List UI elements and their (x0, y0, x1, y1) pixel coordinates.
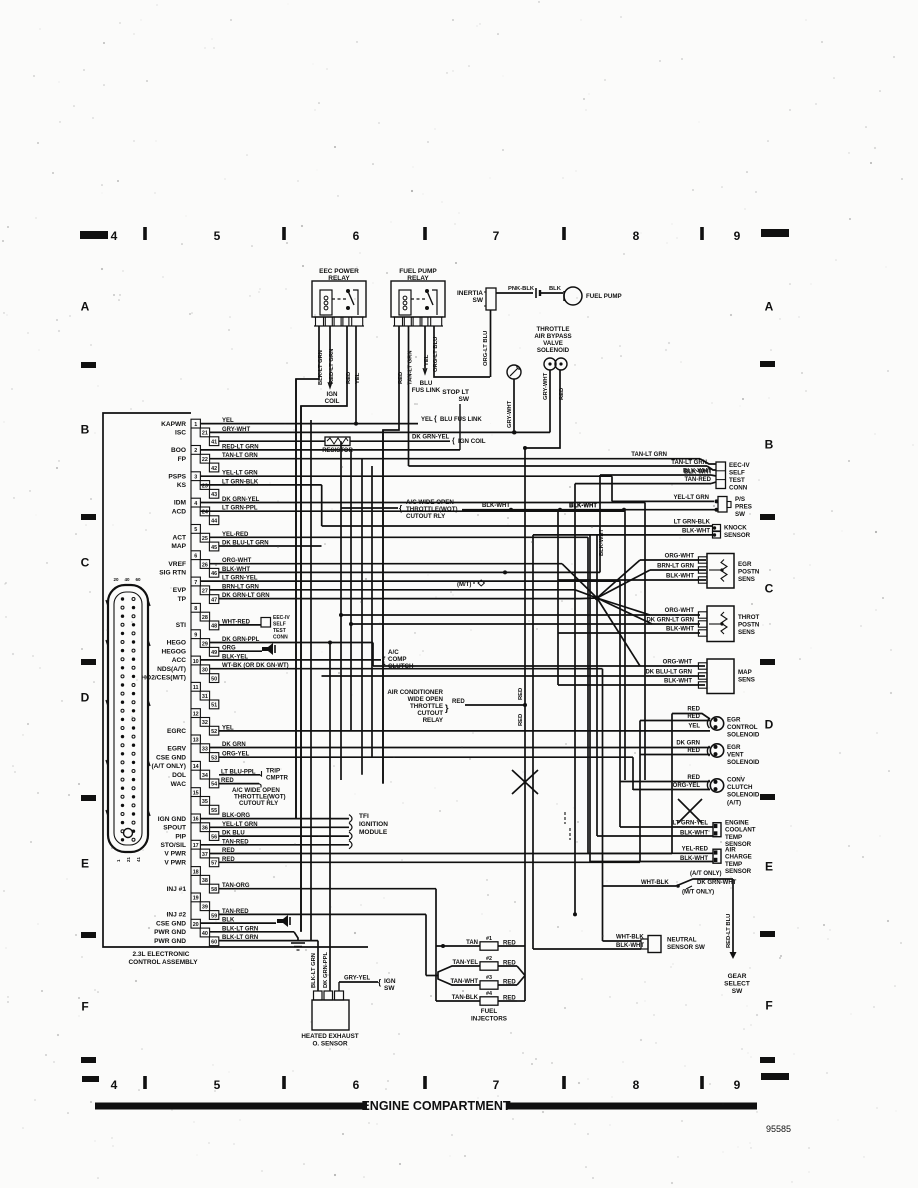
wire pin25 ACT YEL-RED (210, 536, 589, 538)
svg-text:F: F (81, 1000, 88, 1014)
svg-text:AIR BYPASS: AIR BYPASS (534, 333, 571, 340)
svg-text:8: 8 (194, 606, 197, 612)
svg-text:IGNITION: IGNITION (359, 821, 388, 828)
svg-text:KAPWR: KAPWR (161, 421, 186, 428)
svg-text:FUEL PUMP: FUEL PUMP (586, 293, 622, 300)
svg-text:LT GRN-YEL: LT GRN-YEL (222, 576, 258, 582)
heated exhaust O2 sensor (312, 1000, 349, 1030)
svg-text:5: 5 (214, 1078, 221, 1092)
svg-text:56: 56 (211, 834, 217, 840)
svg-text:EGRC: EGRC (167, 728, 186, 735)
svg-text:YEL: YEL (222, 418, 234, 424)
svg-text:(A/T ONLY): (A/T ONLY) (690, 871, 721, 877)
svg-text:RED: RED (398, 372, 404, 384)
svg-text:VREF: VREF (168, 561, 186, 568)
svg-text:15: 15 (193, 790, 199, 796)
EEC relay wire YEL (355, 326, 357, 424)
wire BLK-WHT to map sens (558, 684, 705, 686)
svg-text:LT GRN-BLK: LT GRN-BLK (674, 520, 711, 526)
wire pin46 SIG RTN BLK-WHT (219, 571, 600, 573)
svg-text:ACC: ACC (172, 657, 187, 664)
RED vertical to EGR solenoids (639, 721, 641, 863)
svg-text:16: 16 (193, 817, 199, 823)
svg-text:CONTROL ASSEMBLY: CONTROL ASSEMBLY (128, 959, 198, 966)
svg-text:RED: RED (687, 714, 700, 720)
svg-text:BLK-ORG: BLK-ORG (222, 813, 250, 819)
svg-text:BOO: BOO (171, 447, 186, 454)
svg-text:SPOUT: SPOUT (163, 825, 186, 832)
svg-text:RED: RED (452, 699, 465, 705)
svg-text:EGRV: EGRV (167, 746, 186, 753)
svg-text:6: 6 (353, 1078, 360, 1092)
wire pin1 KAPWR YEL (200, 423, 418, 425)
svg-text:6: 6 (353, 229, 360, 243)
BLK-WHT bus to neutral (532, 535, 534, 949)
svg-text:PWR GND: PWR GND (154, 938, 186, 945)
svg-text:ORG-WHT: ORG-WHT (663, 660, 693, 666)
wire pin23 KS LT GRN-BLK (200, 484, 322, 486)
wire BLK-WHT to knock sensor (533, 534, 713, 536)
wire RED to EGR vent (640, 754, 710, 756)
svg-text:RED-LT GRN: RED-LT GRN (222, 444, 259, 450)
svg-text:5: 5 (214, 229, 221, 243)
svg-text:38: 38 (202, 878, 208, 884)
svg-text:GEAR: GEAR (728, 973, 747, 980)
injector RED merge (517, 945, 525, 947)
svg-text:TAN-LT GRN: TAN-LT GRN (408, 350, 414, 385)
svg-text:LT GRN-YEL: LT GRN-YEL (672, 821, 708, 827)
svg-text:47: 47 (211, 597, 217, 603)
svg-text:BLK-WHT: BLK-WHT (666, 627, 694, 633)
svg-text:DOL: DOL (172, 772, 186, 779)
svg-text:YEL: YEL (424, 354, 430, 366)
svg-text:ORG-YEL: ORG-YEL (222, 752, 250, 758)
svg-text:DK GRN: DK GRN (222, 742, 246, 748)
svg-text:INJECTORS: INJECTORS (471, 1016, 507, 1023)
svg-text:FUS LINK: FUS LINK (412, 387, 441, 394)
svg-text:SENSOR: SENSOR (724, 532, 751, 539)
wire pin36 SPOUT YEL-LT GRN (210, 826, 350, 828)
svg-text:39: 39 (202, 905, 208, 911)
svg-text:P/S: P/S (735, 496, 745, 503)
injector feed vertical left (435, 889, 437, 1001)
svg-text:CSE GND: CSE GND (156, 920, 186, 927)
svg-text:TP: TP (178, 596, 187, 603)
svg-text:O. SENSOR: O. SENSOR (313, 1041, 348, 1048)
wire ORG-WHT to throt postn sens (341, 614, 700, 616)
junction node spider (595, 596, 600, 601)
svg-text:YEL-LT GRN: YEL-LT GRN (222, 822, 258, 828)
fuel pump relay wire YEL blu fus link (424, 326, 426, 372)
svg-text:#4: #4 (486, 991, 492, 997)
svg-text:A: A (765, 300, 774, 314)
svg-text:LT BLU-PPL: LT BLU-PPL (221, 769, 256, 775)
BLK-WHT bus vertical (557, 510, 559, 685)
wire WHT-BLK to neutral sw (603, 940, 642, 942)
svg-text:BLK-WHT: BLK-WHT (569, 503, 597, 509)
engine coolant temp sensor (713, 823, 721, 837)
svg-text:VENT: VENT (727, 752, 744, 759)
svg-text:RED-LT BLU: RED-LT BLU (726, 914, 732, 948)
svg-text:ORG-LT BLU: ORG-LT BLU (433, 337, 439, 372)
svg-text:SENS: SENS (738, 629, 755, 636)
svg-text:WHT-BLK: WHT-BLK (641, 880, 669, 886)
solenoid wire GRY-WHT (549, 370, 551, 432)
svg-text:CONTROL: CONTROL (727, 724, 758, 731)
svg-text:DK BLU: DK BLU (222, 831, 245, 837)
svg-text:YEL: YEL (421, 417, 433, 423)
cse gnd shield symbol (277, 915, 288, 927)
svg-text:CSE GND: CSE GND (156, 754, 186, 761)
wire pin57 V PWR RED (219, 861, 640, 863)
svg-text:TAN-ORG: TAN-ORG (222, 883, 250, 889)
svg-text:{: { (452, 438, 455, 445)
svg-text:4: 4 (111, 1078, 118, 1092)
svg-text:TAN-LT GRN: TAN-LT GRN (631, 452, 667, 458)
wire pin53 ORG-YEL (219, 756, 633, 758)
svg-text:14: 14 (193, 764, 199, 770)
svg-text:49: 49 (211, 650, 217, 656)
wire LT GRN-BLK to knock sensor (322, 525, 713, 527)
svg-text:BLK: BLK (222, 918, 235, 924)
border dashes right (760, 361, 775, 367)
svg-text:YEL: YEL (222, 725, 234, 731)
wire pin2 BOO RED-LT GRN (200, 449, 460, 451)
MAP sensor (707, 659, 734, 694)
svg-text:PSPS: PSPS (168, 473, 186, 480)
wire pin34 DOL LT BLU-PPL trip cmptr (219, 774, 260, 776)
svg-text:SOLENOID: SOLENOID (727, 732, 760, 739)
svg-text:V PWR: V PWR (164, 851, 186, 858)
svg-text:SELECT: SELECT (724, 981, 750, 988)
svg-text:33: 33 (202, 747, 208, 753)
solenoid wire RED (525, 370, 560, 448)
svg-text:SOLENOID: SOLENOID (537, 347, 570, 354)
wire ORG-YEL to conv clutch solenoid (633, 789, 710, 791)
svg-text:THROTTLE(WOT): THROTTLE(WOT) (406, 506, 458, 513)
svg-text:BLK-LT GRN: BLK-LT GRN (311, 953, 317, 988)
svg-text:BLK-WHT: BLK-WHT (680, 831, 708, 837)
X crossing left (512, 770, 538, 794)
svg-text:RELAY: RELAY (328, 275, 350, 282)
branch to A/T and M/T (676, 879, 733, 886)
svg-text:ORG-WHT: ORG-WHT (222, 558, 252, 564)
mid EEC-IV self test conn (261, 618, 271, 628)
svg-text:54: 54 (211, 782, 217, 788)
svg-text:HEATED EXHAUST: HEATED EXHAUST (301, 1033, 358, 1040)
svg-text:EEC-IV: EEC-IV (729, 462, 751, 469)
svg-text:TRIP: TRIP (266, 768, 280, 775)
feed wire GRY-WHT down (513, 379, 515, 432)
svg-text:DK GRN-PPL: DK GRN-PPL (222, 637, 260, 643)
svg-text:TEST: TEST (273, 628, 286, 634)
svg-text:SW: SW (732, 988, 743, 995)
svg-text:CONV: CONV (727, 777, 746, 784)
svg-text:EEC-IV: EEC-IV (273, 615, 290, 621)
TFI ignition module bracket (349, 815, 352, 823)
svg-text:20: 20 (193, 922, 199, 928)
svg-text:KNOCK: KNOCK (724, 525, 747, 532)
wire BLK-WHT to P/S press sw (462, 509, 716, 511)
EGR position sensor (707, 554, 734, 589)
svg-text:4: 4 (111, 229, 118, 243)
svg-text:SW: SW (384, 985, 395, 992)
svg-text:SENS: SENS (738, 677, 755, 684)
svg-text:RED: RED (222, 857, 235, 863)
svg-text:DK GRN-WHT: DK GRN-WHT (697, 880, 737, 886)
a/c wot relay label mid (341, 507, 398, 509)
svg-text:26: 26 (202, 562, 208, 568)
svg-text:ORG-WHT: ORG-WHT (665, 608, 695, 614)
svg-text:STI: STI (176, 622, 186, 629)
svg-text:7: 7 (194, 580, 197, 586)
wire pin47 TP DK GRN-LT GRN (219, 598, 580, 600)
svg-text:TAN-RED: TAN-RED (222, 909, 249, 915)
svg-text:RED: RED (346, 372, 352, 384)
svg-text:ORG: ORG (222, 646, 236, 652)
svg-text:C: C (81, 556, 90, 570)
svg-text:58: 58 (211, 887, 217, 893)
svg-text:2: 2 (194, 448, 197, 454)
wire pin22 FP TAN-LT GRN to EEC-IV test conn (210, 458, 701, 460)
svg-text:YEL-LT GRN: YEL-LT GRN (222, 471, 258, 477)
svg-text:CUTOUT RLY: CUTOUT RLY (406, 513, 446, 520)
svg-text:SELF: SELF (273, 622, 286, 628)
svg-text:IGN: IGN (326, 391, 338, 398)
svg-text:30: 30 (202, 668, 208, 674)
svg-text:53: 53 (211, 755, 217, 761)
wire RED-LT BLU to gear select sw (732, 879, 734, 952)
svg-text:MAP: MAP (738, 669, 752, 676)
wire ORG-WHT to map sens (373, 665, 705, 667)
wire RED EGR control mid (640, 720, 710, 722)
svg-text:CONN: CONN (729, 485, 748, 492)
fuel pump relay wire RED (383, 326, 399, 784)
svg-text:RELAY: RELAY (423, 717, 444, 724)
svg-text:SOLENOID: SOLENOID (727, 792, 760, 799)
svg-text:RED: RED (559, 388, 565, 400)
svg-text:TAN-RED: TAN-RED (222, 839, 249, 845)
svg-text:AIR CONDITIONER: AIR CONDITIONER (387, 689, 443, 696)
svg-text:BLK-LT GRN: BLK-LT GRN (222, 935, 258, 941)
svg-text:11: 11 (193, 685, 199, 691)
svg-text:34: 34 (202, 773, 208, 779)
EEC relay wire RED-LT GRN to ign coil (329, 326, 331, 386)
wire BLK-WHT to test conn (600, 474, 711, 476)
svg-text:NDS(A/T): NDS(A/T) (157, 666, 186, 673)
svg-text:41: 41 (211, 440, 217, 446)
svg-text:BLK-WHT: BLK-WHT (599, 528, 605, 556)
svg-text:55: 55 (211, 808, 217, 814)
svg-text:YEL-LT GRN: YEL-LT GRN (673, 495, 709, 501)
svg-text:9: 9 (194, 633, 197, 639)
svg-text:BLK-WHT: BLK-WHT (664, 679, 692, 685)
fuel pump relay wire TAN-LT GRN (408, 326, 410, 466)
wire TAN-LT GRN from fuel pump relay to test conn (409, 465, 708, 467)
svg-text:STOP LT: STOP LT (442, 389, 469, 396)
P/S pressure switch (718, 497, 727, 513)
svg-text:31: 31 (202, 694, 208, 700)
svg-text:EGR: EGR (738, 561, 752, 568)
svg-text:DK BLU-LT GRN: DK BLU-LT GRN (645, 670, 692, 676)
starter relay feed symbol (507, 365, 521, 379)
svg-text:37: 37 (202, 852, 208, 858)
svg-text:ACT: ACT (172, 535, 186, 542)
svg-text:ORG-WHT: ORG-WHT (665, 554, 695, 560)
wire pin26 VREF ORG-WHT (210, 563, 563, 565)
svg-text:V PWR: V PWR (164, 860, 186, 867)
svg-text:TEMP: TEMP (725, 861, 742, 868)
svg-text:40: 40 (202, 931, 208, 937)
EEC relay wire BLK-LT GRN (296, 326, 319, 819)
fuel pump relay wire ORG-LT BLU (434, 326, 490, 377)
svg-text:#1: #1 (486, 936, 492, 942)
svg-text:DK GRN-LT GRN: DK GRN-LT GRN (646, 618, 694, 624)
wire pin4 IDM DK GRN-YEL (200, 502, 645, 504)
svg-text:THROTTLE: THROTTLE (537, 326, 570, 333)
svg-text:9: 9 (734, 1078, 741, 1092)
svg-text:5: 5 (194, 527, 197, 533)
svg-text:6: 6 (194, 554, 197, 560)
wire WHT-BLK branch (603, 885, 677, 887)
BLK-WHT vertical upper (599, 475, 601, 572)
wire YEL-LT GRN to P/S press sw (612, 500, 714, 502)
svg-text:TEST: TEST (729, 477, 745, 484)
svg-text:A/C: A/C (388, 649, 399, 656)
wire pin21 ISC GRY-WHT (210, 431, 551, 433)
svg-text:8: 8 (633, 229, 640, 243)
svg-text:RED: RED (222, 848, 235, 854)
fuel pump relay (391, 281, 445, 317)
svg-text:D: D (765, 718, 774, 732)
wire pin17 STO/SIL TAN-RED (200, 844, 349, 846)
wire GRY-YEL to ign sw (338, 982, 340, 991)
O2 sensor wire BLK-LT GRN vertical (317, 941, 319, 991)
svg-text:YEL-RED: YEL-RED (682, 847, 709, 853)
svg-text:BLK-WHT: BLK-WHT (682, 529, 710, 535)
wire pin49 HEGOG ORG to shield (219, 650, 262, 652)
svg-text:35: 35 (202, 799, 208, 805)
svg-text:57: 57 (211, 861, 217, 867)
svg-text:EGR: EGR (727, 717, 741, 724)
EGR control solenoid (710, 717, 723, 730)
svg-text:42: 42 (211, 466, 217, 472)
wire pin45 DK BLU-LT GRN (219, 545, 322, 547)
throttle position sensor (707, 606, 734, 642)
wire DK BLU-LT GRN to map sens (322, 675, 706, 677)
svg-text:BLK-LT GRN: BLK-LT GRN (222, 926, 258, 932)
ECA pin boxes 1-60 (191, 419, 200, 428)
svg-text:ENGINE: ENGINE (725, 820, 749, 827)
wire pin16 IGN GND BLK-ORG (200, 818, 349, 820)
svg-text:MAP: MAP (171, 543, 186, 550)
svg-text:IGN: IGN (384, 978, 396, 985)
BLK-WHT vertical to air charge (589, 535, 591, 862)
svg-text:MODULE: MODULE (359, 829, 388, 836)
RED bus vertical (524, 448, 526, 1001)
svg-text:TEMP: TEMP (725, 834, 742, 841)
svg-text:WAC: WAC (171, 781, 187, 788)
svg-text:{: { (434, 416, 437, 423)
svg-text:DK BLU-LT GRN: DK BLU-LT GRN (222, 541, 269, 547)
svg-text:RED: RED (221, 778, 234, 784)
ECA 2.3L Electronic Control Assembly box outline (103, 413, 368, 947)
wire pin58 INJ1 TAN-ORG (219, 888, 436, 890)
TAN-RED vertical (574, 484, 576, 915)
svg-text:FP: FP (178, 456, 187, 463)
svg-text:THROTTLE: THROTTLE (410, 703, 443, 710)
svg-text:CUTOUT: CUTOUT (417, 710, 443, 717)
svg-text:2.3L ELECTRONIC: 2.3L ELECTRONIC (133, 951, 190, 958)
svg-text:SELF: SELF (729, 470, 745, 477)
svg-text:(M/T ONLY): (M/T ONLY) (682, 890, 714, 896)
wire BLK-WHT to throt postn sens (558, 632, 700, 634)
svg-text:8: 8 (633, 1078, 640, 1092)
svg-text:ORG-LT BLU: ORG-LT BLU (483, 331, 489, 366)
svg-text:BLK-LT GRN: BLK-LT GRN (318, 350, 324, 385)
svg-text:BLK-WHT: BLK-WHT (666, 574, 694, 580)
air charge temp sensor (713, 849, 721, 863)
svg-text:95585: 95585 (766, 1124, 791, 1134)
EEC power relay (312, 281, 366, 317)
svg-text:BLK-WHT: BLK-WHT (616, 943, 644, 949)
svg-text:ORG-YEL: ORG-YEL (673, 783, 701, 789)
X crossing right (678, 799, 702, 823)
svg-text:SENSOR SW: SENSOR SW (667, 944, 705, 951)
svg-text:INJ #1: INJ #1 (167, 886, 187, 893)
svg-text:GRY-WHT: GRY-WHT (507, 400, 513, 428)
svg-text:CONN: CONN (273, 635, 288, 641)
svg-text:#3: #3 (486, 975, 492, 981)
svg-text:POSTN: POSTN (738, 569, 760, 576)
shield symbol (262, 643, 273, 655)
svg-text:7: 7 (493, 229, 500, 243)
neutral sensor switch (648, 936, 661, 953)
wire pin20 CSE GND BLK (200, 922, 276, 924)
svg-text:BLU: BLU (420, 380, 433, 387)
svg-text:BRN-LT GRN: BRN-LT GRN (222, 584, 259, 590)
conv clutch solenoid (710, 779, 723, 792)
ground symbol (291, 942, 305, 944)
svg-text:DK GRN: DK GRN (676, 741, 700, 747)
wire bundle verticals (295, 379, 297, 819)
svg-text:50: 50 (211, 676, 217, 682)
wire pin60 PWR GND BLK-LT GRN (219, 940, 318, 942)
svg-text:{: { (399, 504, 402, 513)
svg-text:CMPTR: CMPTR (266, 775, 289, 782)
svg-text:CUTOUT RLY: CUTOUT RLY (239, 800, 279, 807)
wire pin41 resistor DK GRN-YEL ign coil (219, 440, 325, 442)
svg-text:WHT-RED: WHT-RED (222, 619, 251, 625)
wire pin33 EGRV DK GRN (210, 747, 711, 749)
svg-text:YEL: YEL (355, 372, 361, 384)
svg-text:FUEL PUMP: FUEL PUMP (399, 268, 437, 275)
svg-text:WHT-BLK: WHT-BLK (616, 935, 644, 941)
svg-text:RESISTOR: RESISTOR (322, 448, 353, 454)
svg-text:D: D (81, 691, 90, 705)
svg-text:YEL-RED: YEL-RED (222, 532, 249, 538)
svg-text:TAN-LT GRN: TAN-LT GRN (671, 460, 707, 466)
svg-text:{: { (378, 978, 381, 987)
svg-text:41: 41 (136, 856, 141, 862)
svg-text:GRY-YEL: GRY-YEL (344, 976, 370, 982)
wire pin29 HEGO DK GRN-PPL (210, 642, 374, 644)
svg-text:12: 12 (193, 711, 199, 717)
svg-text:TAN-RED: TAN-RED (684, 477, 711, 483)
svg-text:#2: #2 (486, 956, 492, 962)
svg-text:SW: SW (735, 511, 745, 518)
wire pin54 WAC RED (219, 783, 259, 785)
